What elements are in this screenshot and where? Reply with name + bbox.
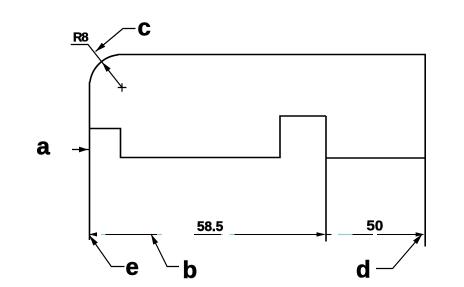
svg-text:e: e bbox=[126, 254, 139, 281]
svg-text:R8: R8 bbox=[73, 30, 88, 45]
svg-text:58.5: 58.5 bbox=[197, 219, 224, 234]
svg-text:50: 50 bbox=[367, 218, 384, 235]
svg-text:c: c bbox=[138, 15, 151, 42]
svg-text:b: b bbox=[183, 257, 198, 284]
svg-text:a: a bbox=[37, 134, 51, 161]
svg-text:d: d bbox=[356, 257, 371, 284]
